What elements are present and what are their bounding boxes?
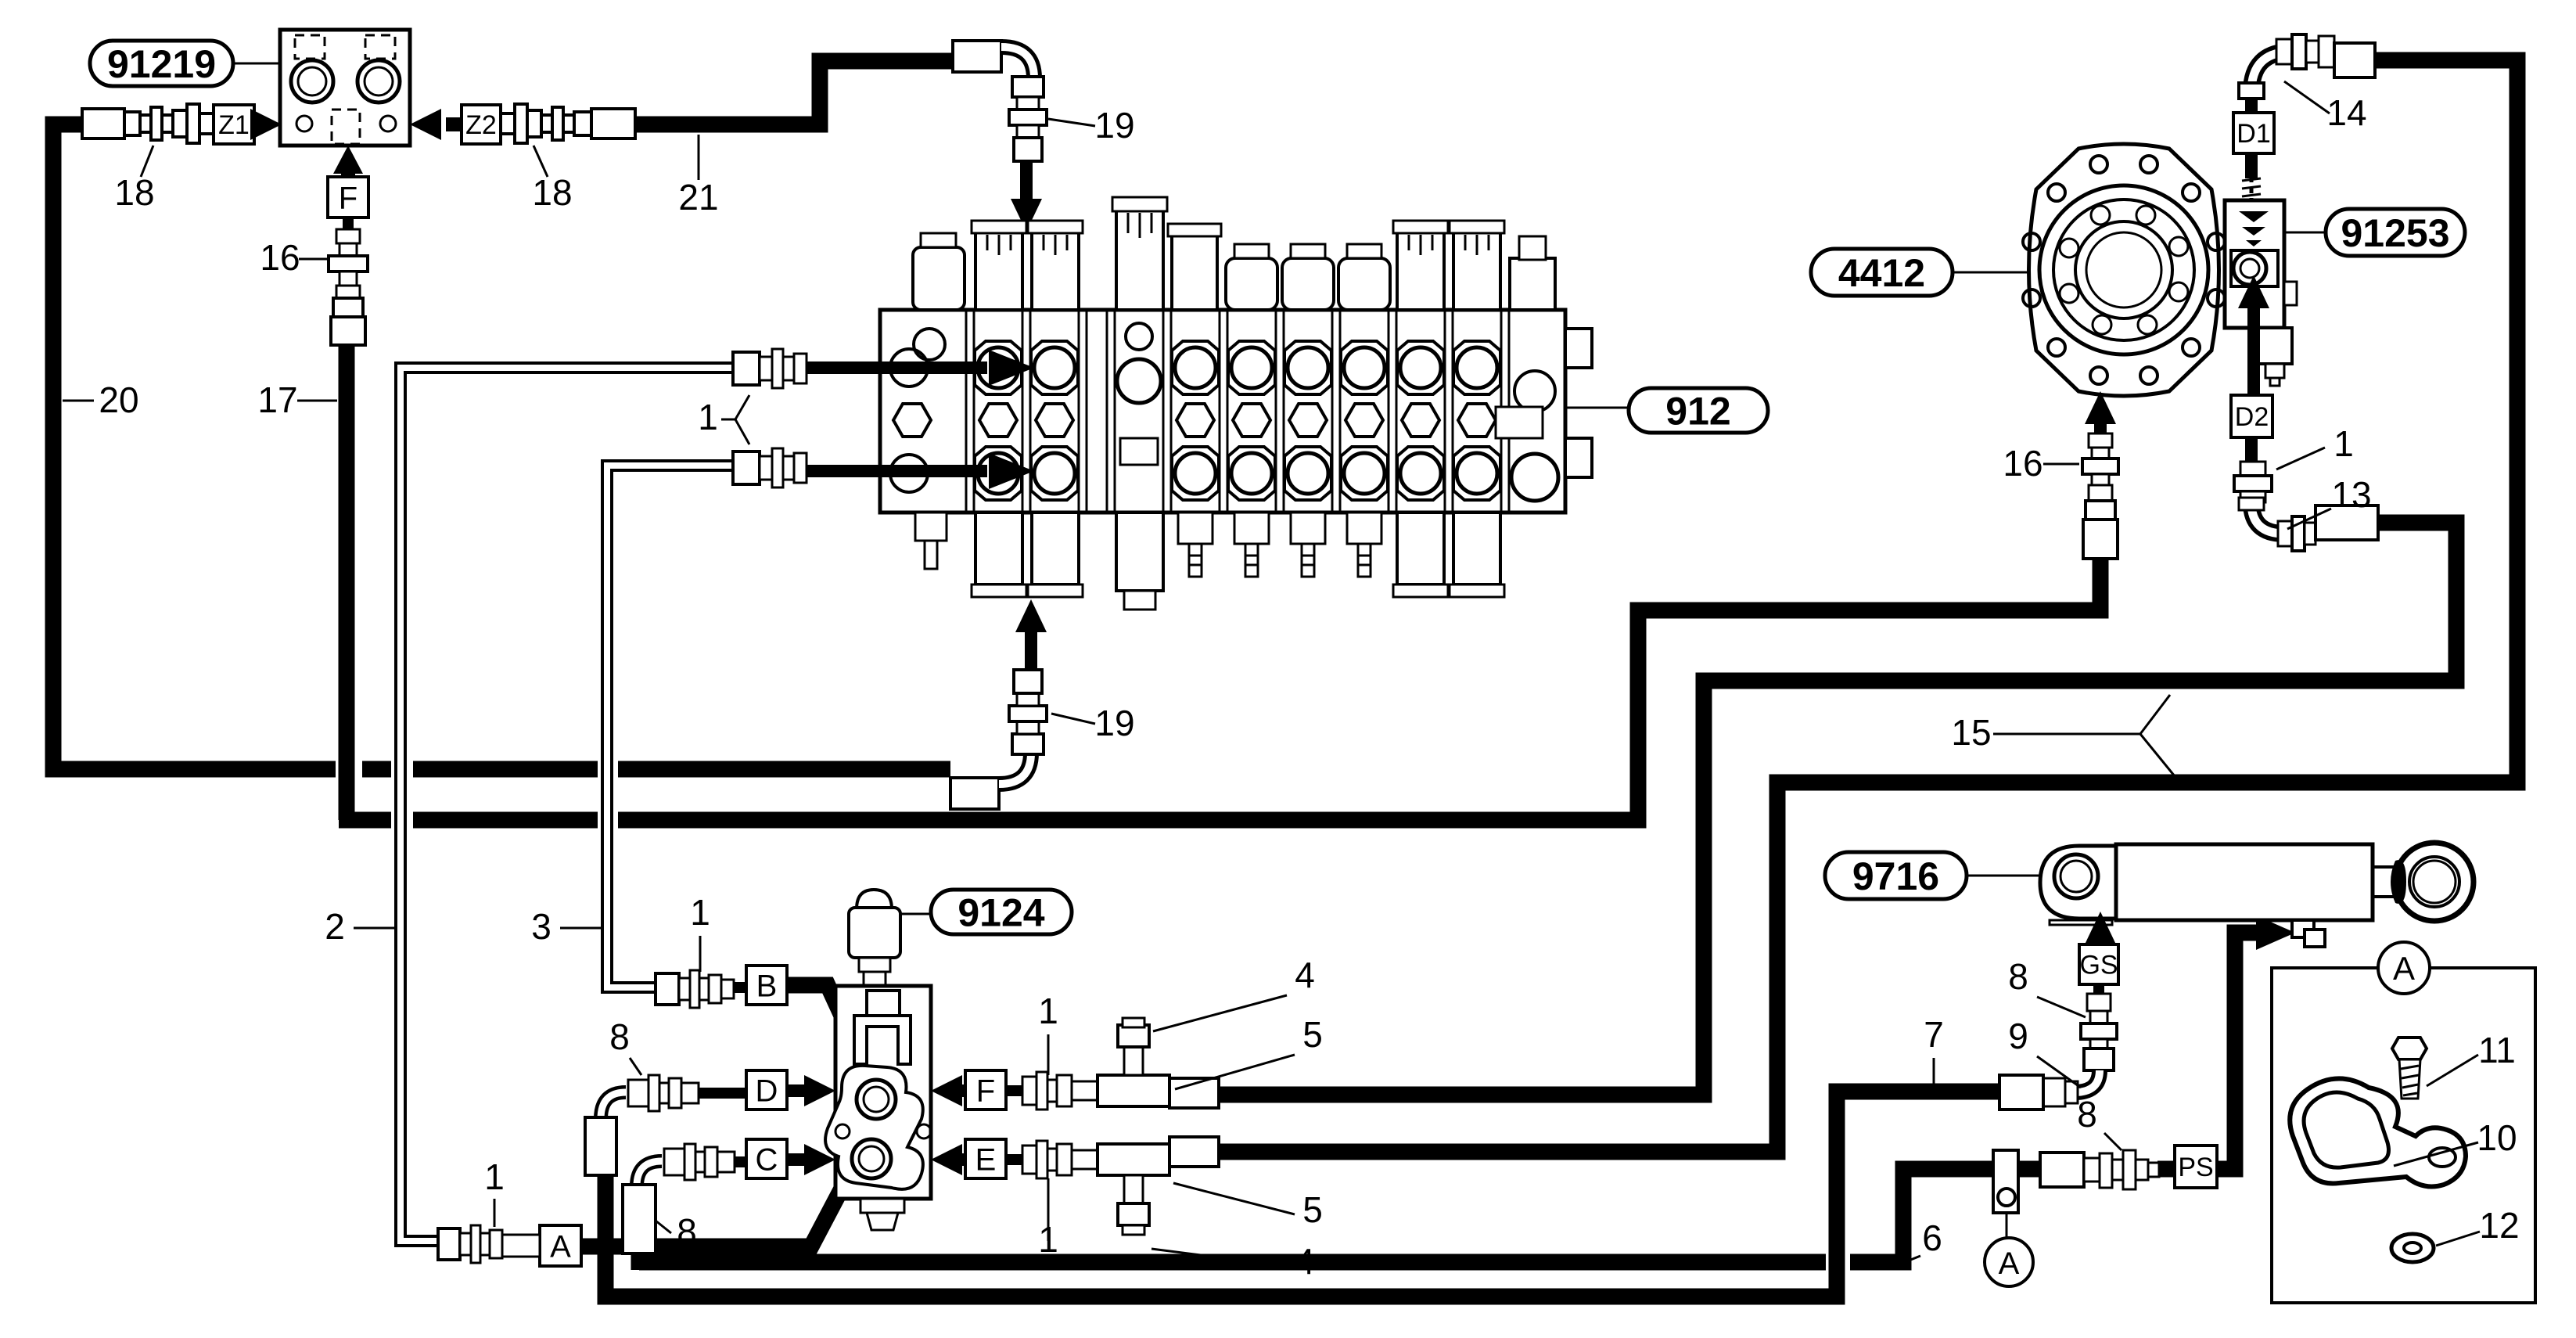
connector 1 lower bank fitting	[733, 451, 760, 484]
connector 8 left of PS	[2040, 1153, 2084, 1187]
connector 1 left of B	[656, 973, 679, 1005]
svg-text:4: 4	[1295, 1241, 1315, 1282]
wire E arrow	[953, 1153, 965, 1166]
node PS	[2175, 1146, 2217, 1188]
connector 14 elbow top right	[2251, 52, 2292, 92]
svg-text:8: 8	[677, 1211, 697, 1252]
left end block detail	[890, 349, 928, 387]
connector 16 stack below F	[343, 218, 354, 231]
svg-text:PS: PS	[2178, 1153, 2213, 1182]
wire hose 15a (13 to F)	[1219, 523, 2456, 1095]
cylinder rod	[2373, 867, 2395, 897]
wire hose 15b (14 to E)	[1219, 60, 2517, 1152]
svg-text:D1: D1	[2236, 119, 2270, 149]
connector 1 below D2	[2240, 462, 2265, 476]
motor 4412 flange	[2029, 144, 2219, 396]
port boss section x1816	[1397, 341, 1444, 394]
svg-text:912: 912	[1665, 390, 1730, 433]
svg-text:A: A	[2393, 950, 2415, 987]
connector 19 top elbow	[953, 41, 1001, 72]
svg-text:F: F	[976, 1074, 995, 1108]
svg-text:20: 20	[99, 379, 138, 420]
tee fitting item 5 bottom	[1098, 1144, 1169, 1175]
connector 13 elbow	[2251, 502, 2284, 534]
bolt hole motor 150	[2023, 290, 2040, 307]
wire arrow into bank top	[1020, 161, 1033, 205]
port boss section x1528	[1172, 341, 1219, 394]
svg-text:15: 15	[1951, 712, 1991, 753]
9124 ears	[835, 1124, 850, 1138]
svg-text:1: 1	[484, 1156, 505, 1197]
svg-text:1: 1	[690, 892, 710, 933]
svg-text:12: 12	[2479, 1205, 2519, 1246]
wire hose 17	[339, 343, 2100, 820]
cylinder 9716 body	[2116, 844, 2373, 920]
bolt hole motor 240	[2090, 156, 2107, 173]
svg-text:91219: 91219	[107, 42, 216, 86]
wire hose B to 9124 upper port	[787, 985, 868, 1074]
wire pipe2	[401, 368, 733, 1241]
port boss section x1348	[1031, 341, 1078, 394]
svg-text:19: 19	[1094, 703, 1134, 743]
svg-text:13: 13	[2331, 474, 2371, 515]
connector 8 elbow left of C	[664, 1149, 684, 1175]
svg-text:16: 16	[2003, 443, 2042, 484]
callout oval 4412	[1811, 249, 1953, 296]
node B	[746, 966, 787, 1005]
port boss section x1600	[1228, 341, 1275, 394]
svg-text:5: 5	[1302, 1014, 1323, 1055]
wire hose 21	[635, 61, 953, 124]
svg-text:7: 7	[1924, 1014, 1944, 1055]
callout oval 91253	[2326, 209, 2465, 256]
clamp 10	[2290, 1078, 2466, 1186]
lug ear top left	[914, 329, 945, 360]
svg-text:4: 4	[1295, 955, 1315, 995]
9124 port bosses	[825, 1066, 923, 1189]
svg-text:GS: GS	[2079, 951, 2118, 980]
wire arrow to lower port	[807, 465, 987, 477]
wire hose 6	[639, 1169, 2042, 1270]
port boss section x1888	[1453, 341, 1500, 394]
node A circle small	[1985, 1238, 2033, 1286]
svg-text:A: A	[550, 1229, 571, 1264]
wire hose 7	[605, 1092, 1999, 1297]
connector 1 + tee right of F	[1006, 1085, 1022, 1096]
connector 1 upper bank fitting	[733, 352, 760, 385]
valve 91253 solenoid bottom	[2256, 328, 2292, 364]
svg-text:6: 6	[1922, 1218, 1942, 1258]
node C	[746, 1139, 787, 1178]
connector 16 below motor	[2085, 391, 2116, 424]
bolt hole motor 330	[2208, 233, 2225, 250]
bolt hole motor 180	[2023, 233, 2040, 250]
port boss section x1672	[1284, 341, 1331, 394]
svg-text:D2: D2	[2235, 402, 2269, 432]
top caps	[913, 247, 965, 310]
cylinder bottom fitting	[2292, 920, 2314, 937]
node D1	[2233, 113, 2274, 153]
wire hose A to 9124 lower port	[581, 1156, 859, 1246]
rod eye	[2395, 843, 2474, 921]
node A circle detail	[2378, 942, 2430, 994]
svg-text:17: 17	[257, 379, 297, 420]
node D	[746, 1070, 787, 1110]
connector 1 left of A	[438, 1228, 460, 1260]
node F mid	[965, 1070, 1006, 1110]
bolt hole motor 210	[2048, 184, 2065, 201]
node D2	[2231, 395, 2272, 437]
connector 8 elbow left of D	[628, 1080, 648, 1106]
callout oval 9716	[1825, 852, 1967, 899]
svg-text:10: 10	[2477, 1117, 2517, 1158]
wire F arrow	[953, 1084, 965, 1097]
bolt hole motor 120	[2048, 339, 2065, 356]
svg-text:3: 3	[531, 906, 551, 947]
svg-text:B: B	[756, 969, 778, 1003]
svg-text:14: 14	[2326, 92, 2366, 133]
callout oval 912	[1565, 407, 1629, 409]
svg-text:A: A	[1999, 1246, 2020, 1281]
washer 12	[2391, 1234, 2434, 1262]
svg-text:Z2: Z2	[465, 110, 497, 140]
node Z2	[462, 105, 501, 144]
svg-text:1: 1	[2333, 423, 2354, 464]
svg-text:8: 8	[609, 1016, 630, 1057]
node GS	[2085, 912, 2116, 944]
svg-text:18: 18	[114, 172, 154, 213]
wire D2 arrow up into port	[2247, 297, 2260, 395]
svg-text:5: 5	[1302, 1189, 1323, 1230]
svg-text:9716: 9716	[1852, 854, 1939, 898]
svg-text:F: F	[339, 181, 357, 215]
detail box	[2272, 968, 2535, 1303]
connector 18 right chain	[501, 113, 515, 134]
callout oval 9124	[931, 890, 1072, 934]
connector 9 elbow	[2084, 1048, 2114, 1070]
valve 9124 solenoid	[857, 890, 892, 909]
bolt hole motor 60	[2140, 367, 2157, 384]
wire hose 20	[53, 124, 336, 769]
wire D arrow	[787, 1084, 814, 1097]
wire arrow into bank bottom	[1025, 626, 1037, 670]
connector 18 left chain	[82, 109, 124, 138]
svg-text:16: 16	[260, 237, 300, 278]
right end block details	[1565, 329, 1592, 368]
bottom caps	[975, 513, 1022, 584]
tee fitting item 5 top	[1098, 1075, 1169, 1106]
wire C arrow	[787, 1153, 814, 1166]
valve 9124 body	[835, 986, 931, 1199]
bolt hole motor 300	[2183, 184, 2200, 201]
svg-text:11: 11	[2478, 1030, 2516, 1070]
callout oval 91219	[90, 41, 233, 86]
connector 19 bottom elbow	[950, 778, 999, 809]
svg-text:9: 9	[2008, 1016, 2028, 1056]
svg-text:91253: 91253	[2341, 211, 2449, 255]
svg-text:9124: 9124	[957, 891, 1044, 935]
svg-text:4412: 4412	[1838, 251, 1925, 295]
svg-text:2: 2	[325, 906, 345, 947]
bolt 11	[2392, 1038, 2427, 1059]
wire pipe3	[607, 466, 733, 987]
valve block 91219 body	[280, 30, 410, 146]
node F top	[328, 177, 368, 218]
bolt hole motor 270	[2140, 156, 2157, 173]
port boss section x1276	[975, 341, 1022, 394]
svg-text:E: E	[975, 1142, 997, 1177]
motor rings	[2039, 185, 2208, 354]
wire hose 20 lower horizontal	[362, 761, 950, 778]
svg-text:D: D	[756, 1074, 778, 1108]
svg-text:Z1: Z1	[218, 110, 250, 140]
node E	[965, 1139, 1006, 1178]
wire arrow to upper port	[807, 361, 987, 374]
svg-text:1: 1	[1038, 991, 1058, 1031]
connector 8 below GS	[2093, 984, 2104, 995]
connector 1 + tee right of E	[1006, 1154, 1022, 1165]
valve bank 912 main body	[880, 310, 1565, 513]
node Z1	[214, 105, 254, 144]
svg-text:18: 18	[532, 172, 572, 213]
valve 91253 body	[2250, 176, 2254, 200]
svg-text:8: 8	[2077, 1094, 2097, 1135]
svg-text:C: C	[756, 1142, 778, 1177]
svg-text:21: 21	[678, 177, 718, 218]
clamp plate on hose6	[1993, 1150, 2018, 1213]
bolt hole motor 90	[2090, 367, 2107, 384]
bolt hole motor 30	[2183, 339, 2200, 356]
svg-text:1: 1	[698, 397, 718, 437]
svg-text:8: 8	[2008, 956, 2028, 997]
center joint section	[1117, 359, 1161, 403]
bolt hole motor 0	[2208, 290, 2225, 307]
svg-text:19: 19	[1094, 105, 1134, 146]
port boss section x1744	[1341, 341, 1388, 394]
wire hose 6 riser to cylinder	[2157, 933, 2269, 1169]
node A	[540, 1225, 581, 1266]
9124 bottom stub	[860, 1199, 904, 1213]
